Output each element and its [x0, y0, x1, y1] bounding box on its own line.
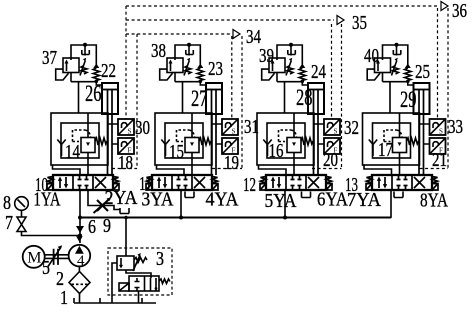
svg-text:6: 6: [88, 216, 96, 238]
svg-text:30: 30: [135, 117, 150, 139]
svg-text:S: S: [232, 128, 236, 136]
svg-text:38: 38: [151, 40, 166, 62]
svg-text:16: 16: [269, 140, 284, 162]
svg-text:25: 25: [415, 61, 430, 83]
svg-text:33: 33: [448, 116, 463, 138]
svg-text:19: 19: [224, 152, 239, 174]
svg-text:14: 14: [65, 141, 80, 163]
svg-text:S: S: [128, 128, 132, 136]
svg-text:S: S: [439, 128, 443, 136]
svg-text:24: 24: [311, 61, 326, 83]
svg-text:39: 39: [259, 45, 274, 67]
svg-text:12: 12: [243, 174, 256, 196]
svg-text:37: 37: [42, 47, 57, 69]
svg-text:M: M: [27, 249, 41, 266]
svg-text:34: 34: [246, 26, 261, 48]
svg-text:F: F: [439, 147, 443, 155]
svg-text:S: S: [334, 128, 338, 136]
svg-text:1YA: 1YA: [34, 189, 61, 211]
svg-text:40: 40: [364, 45, 379, 67]
svg-text:27: 27: [191, 86, 208, 111]
svg-text:15: 15: [169, 141, 184, 163]
svg-text:6YA: 6YA: [317, 189, 348, 211]
svg-text:4: 4: [77, 253, 85, 269]
svg-text:4YA: 4YA: [206, 189, 239, 211]
svg-text:1: 1: [60, 287, 68, 309]
svg-text:5: 5: [42, 257, 50, 279]
svg-text:8YA: 8YA: [420, 190, 448, 212]
svg-text:31: 31: [244, 116, 259, 138]
svg-text:9: 9: [103, 215, 111, 237]
svg-text:22: 22: [101, 60, 116, 82]
svg-text:32: 32: [344, 117, 359, 139]
svg-text:3: 3: [156, 248, 164, 270]
svg-text:29: 29: [400, 87, 417, 112]
svg-text:17: 17: [378, 139, 393, 161]
svg-text:7: 7: [5, 212, 13, 234]
svg-text:3YA: 3YA: [142, 189, 174, 211]
svg-text:2YA: 2YA: [105, 187, 138, 209]
svg-text:8: 8: [3, 192, 11, 214]
svg-text:35: 35: [352, 12, 367, 34]
svg-text:7YA: 7YA: [347, 189, 382, 211]
svg-text:F: F: [334, 147, 338, 155]
svg-text:36: 36: [452, 0, 467, 22]
svg-text:23: 23: [208, 58, 223, 80]
svg-text:5YA: 5YA: [265, 190, 297, 212]
svg-text:26: 26: [85, 81, 102, 106]
svg-text:18: 18: [118, 152, 133, 174]
svg-text:F: F: [232, 147, 236, 155]
svg-text:F: F: [128, 147, 132, 155]
svg-text:28: 28: [296, 85, 313, 110]
